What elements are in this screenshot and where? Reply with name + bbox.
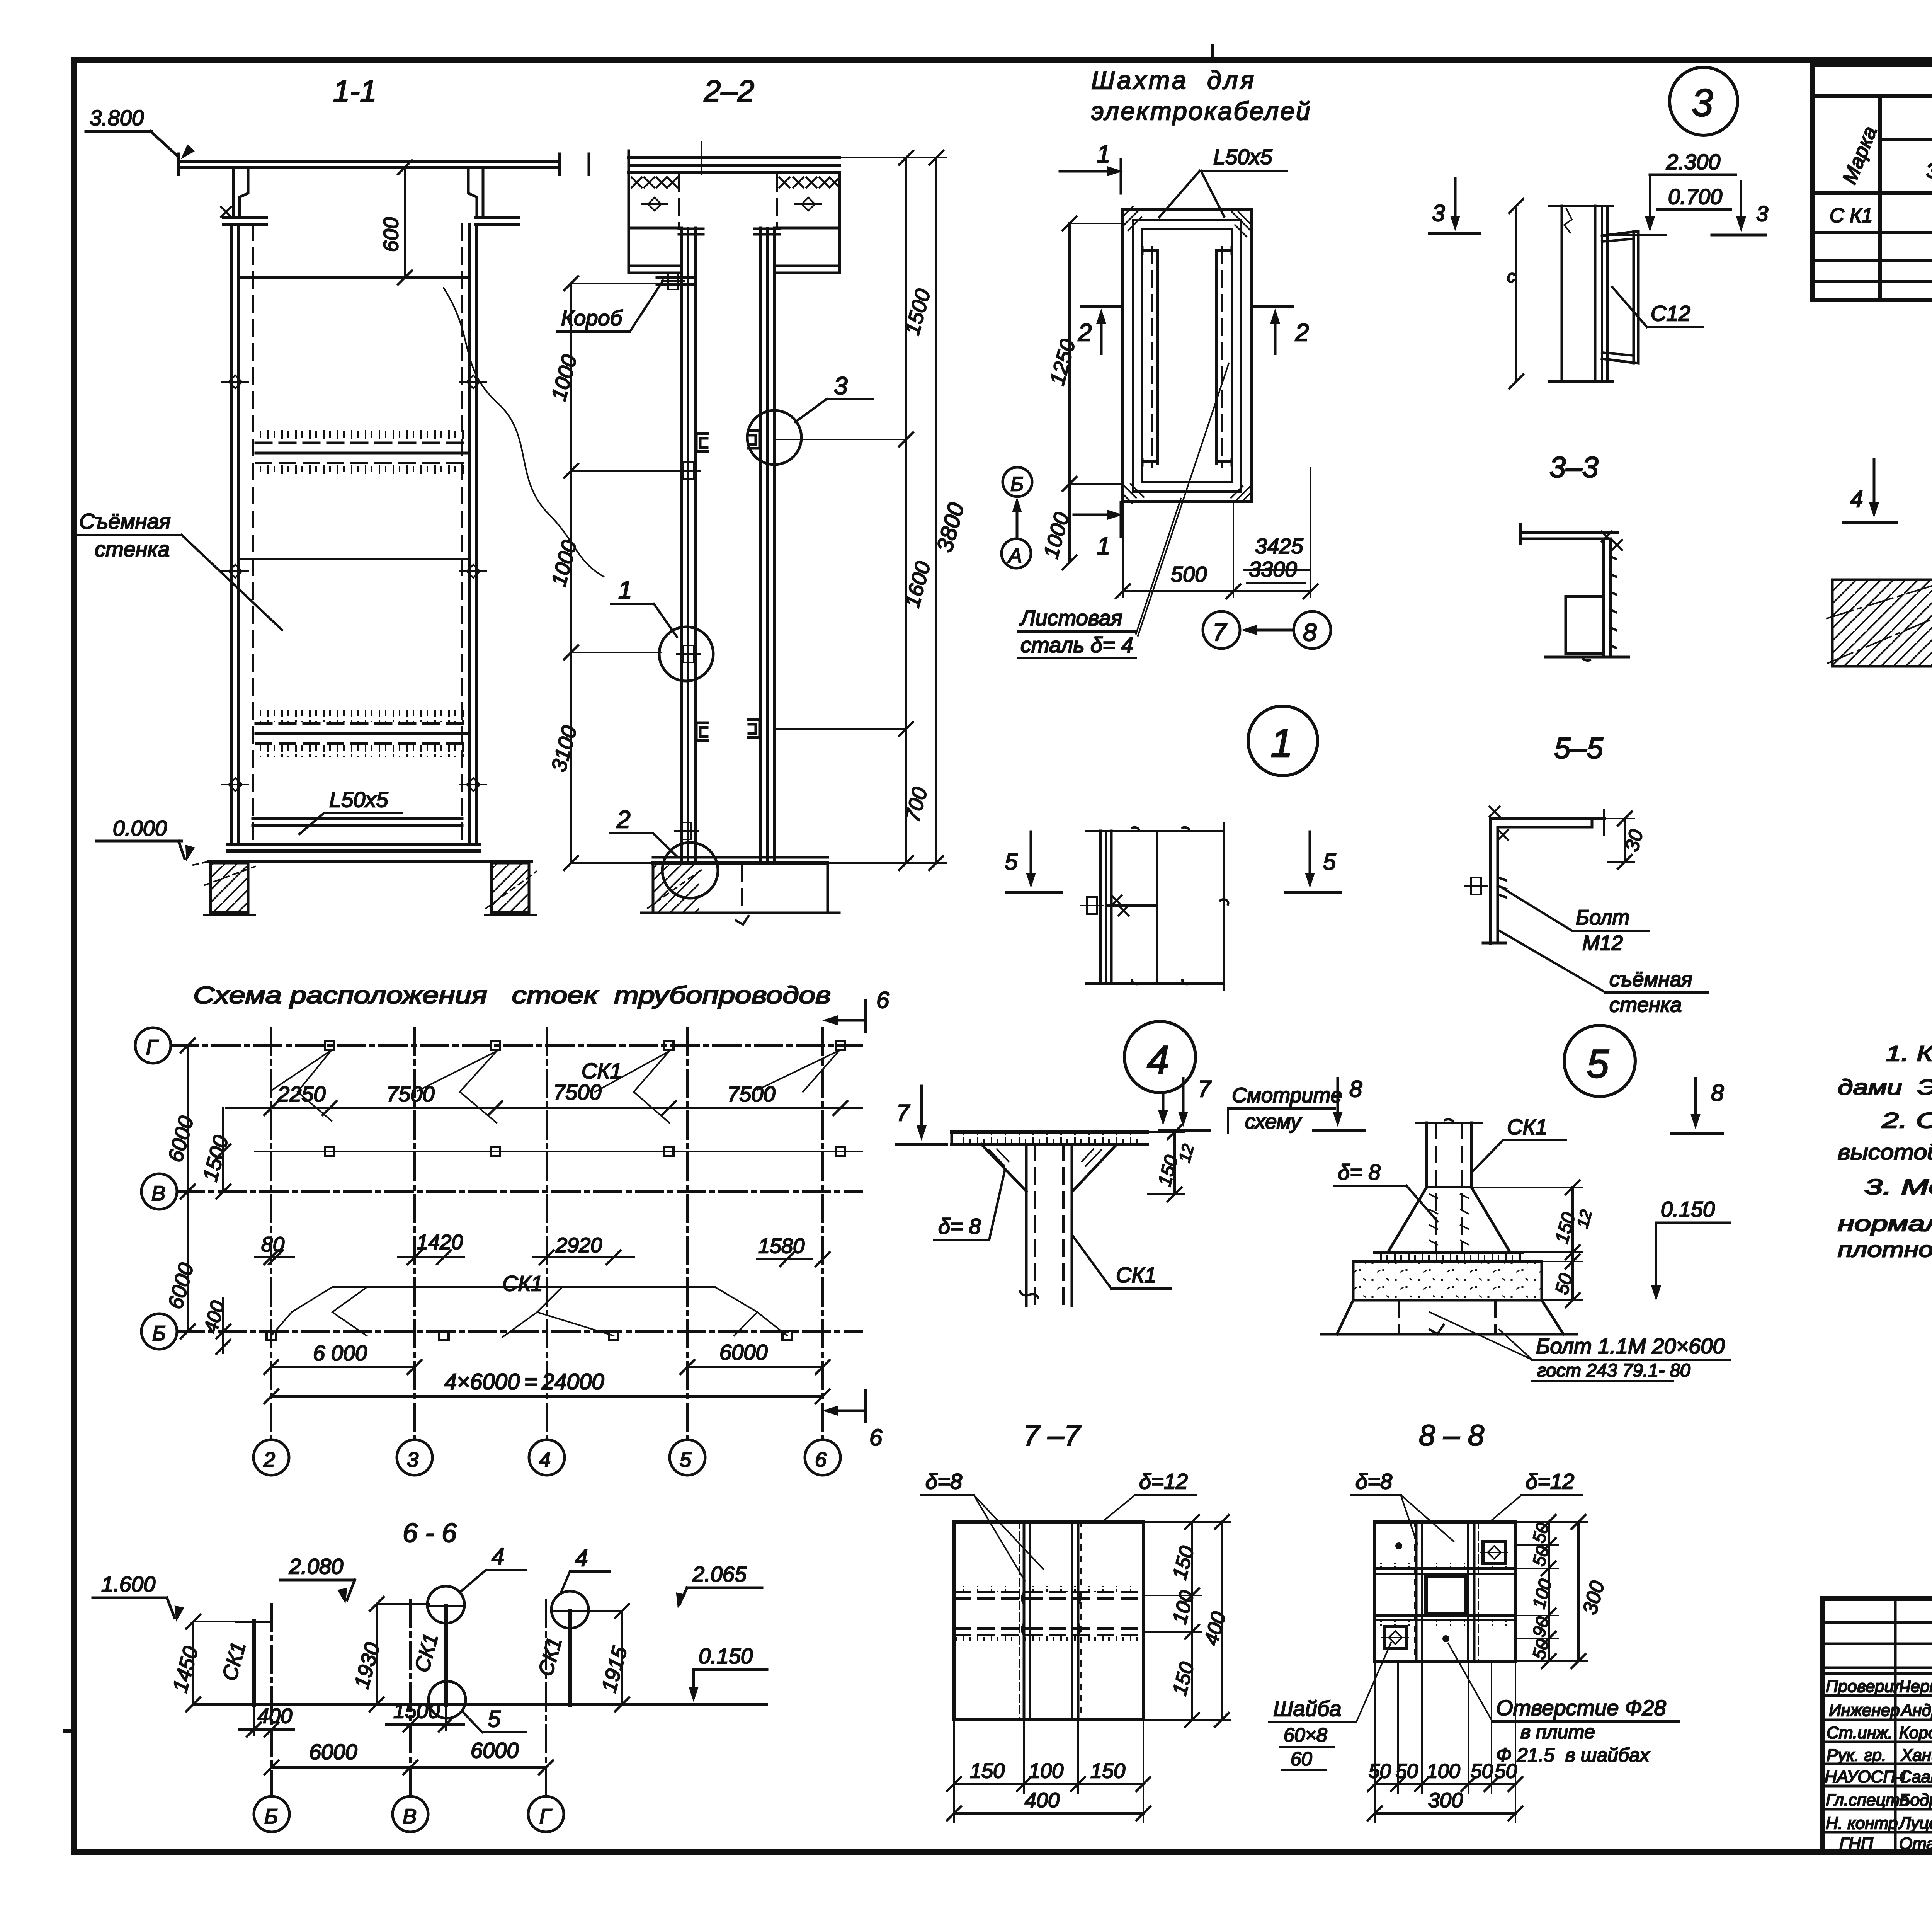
svg-text:L50x5: L50x5 <box>329 787 388 812</box>
svg-text:4: 4 <box>1850 486 1863 512</box>
dim 1500 <box>386 1699 464 1731</box>
svg-text:8: 8 <box>1711 1080 1724 1106</box>
svg-text:Листовая: Листовая <box>1019 606 1122 630</box>
svg-text:1: 1 <box>618 576 632 604</box>
svg-text:3: 3 <box>834 372 848 400</box>
svg-text:δ= 8: δ= 8 <box>1338 1160 1381 1184</box>
svg-text:400: 400 <box>1025 1789 1060 1812</box>
svg-text:Оташевский: Оташевский <box>1899 1834 1932 1853</box>
offset dims 80 1420 2920 1580 <box>255 1231 830 1266</box>
svg-text:100: 100 <box>1427 1760 1460 1782</box>
svg-text:с: с <box>1507 267 1515 286</box>
svg-text:3: 3 <box>1692 81 1713 124</box>
leader label 2 <box>611 805 677 856</box>
svg-text:7500: 7500 <box>386 1082 435 1106</box>
label delta=8 node 5 <box>1334 1160 1437 1221</box>
left foundation block <box>205 863 255 912</box>
svg-text:6 000: 6 000 <box>313 1341 367 1365</box>
svg-text:3.800: 3.800 <box>90 106 144 130</box>
svg-text:3425: 3425 <box>1255 534 1303 558</box>
svg-text:5: 5 <box>680 1448 692 1471</box>
label Листовая сталь <box>1019 363 1229 658</box>
svg-text:6: 6 <box>876 987 889 1013</box>
node 4 column head <box>952 1132 1148 1306</box>
section mark 2 left <box>1078 306 1123 354</box>
section mark 1 bottom <box>1074 502 1123 560</box>
svg-text:стенка: стенка <box>95 537 170 561</box>
svg-text:3: 3 <box>407 1448 418 1471</box>
svg-text:1.600: 1.600 <box>101 1572 155 1596</box>
svg-text:2250: 2250 <box>277 1082 326 1106</box>
leader label 1 <box>611 576 677 637</box>
column axis 3 <box>397 1028 432 1475</box>
node 1 joint detail <box>1080 823 1228 989</box>
svg-text:Ханин: Ханин <box>1901 1746 1932 1765</box>
svg-text:2.080: 2.080 <box>289 1554 343 1578</box>
slab soffit lines right <box>777 228 840 273</box>
fold mark top center <box>1211 46 1214 60</box>
clip channel lower right <box>748 720 760 737</box>
column axis 4 <box>529 1028 565 1475</box>
svg-text:Схема расположения стоек тр: Схема расположения стоек трубопроводов <box>193 982 831 1009</box>
svg-text:δ=12: δ=12 <box>1139 1469 1188 1493</box>
dim 400 <box>240 1704 294 1736</box>
svg-text:400: 400 <box>257 1704 292 1728</box>
8-8 bottom dims <box>1368 1661 1522 1823</box>
svg-text:6000: 6000 <box>309 1740 357 1764</box>
label delta=8 node 4 <box>934 1171 1005 1240</box>
svg-text:Шайба: Шайба <box>1273 1696 1341 1721</box>
column axis 5 <box>670 1028 705 1475</box>
inner removable wall plates <box>1142 229 1232 482</box>
svg-text:2: 2 <box>263 1448 275 1471</box>
post markers row Г <box>325 1041 845 1050</box>
left post cap <box>679 229 703 234</box>
axis В <box>141 1174 862 1209</box>
axis bubbles 6-6 <box>254 1796 564 1832</box>
node circle 5 <box>1564 1025 1635 1096</box>
svg-text:50: 50 <box>1396 1760 1418 1782</box>
svg-text:Проверил: Проверил <box>1826 1677 1903 1696</box>
dims 150 50 12 node 5 <box>1471 1180 1595 1307</box>
svg-text:500: 500 <box>1171 562 1207 586</box>
svg-text:7 –7: 7 –7 <box>1023 1419 1082 1452</box>
right column cap <box>475 218 519 224</box>
dim 30 <box>1604 812 1647 869</box>
foundation 2-2 <box>641 863 839 924</box>
svg-text:2.300: 2.300 <box>1666 150 1720 174</box>
section mark 7 at node 4 <box>1159 1076 1212 1131</box>
section 3 wall elevation <box>1549 206 1613 381</box>
svg-text:1: 1 <box>1270 721 1293 766</box>
base line <box>228 845 479 851</box>
svg-text:высотой hш= 4мм.: высотой hш= 4мм. <box>1838 1140 1932 1164</box>
svg-text:Бодрученко: Бодрученко <box>1899 1791 1932 1810</box>
8-8 base plate square <box>1375 1522 1515 1661</box>
bolt mid post <box>677 462 700 479</box>
dim 1250 <box>1046 216 1123 491</box>
svg-text:4: 4 <box>492 1544 504 1570</box>
svg-text:6: 6 <box>815 1448 827 1471</box>
bottom angle L50x5 <box>253 819 462 826</box>
svg-text:7: 7 <box>1198 1076 1212 1102</box>
clip channel lower left <box>696 723 708 741</box>
svg-text:Инженер: Инженер <box>1829 1701 1900 1720</box>
dim 600 <box>379 160 412 284</box>
svg-text:С К1: С К1 <box>1830 204 1873 227</box>
svg-text:СК1: СК1 <box>582 1059 622 1083</box>
svg-text:СК1: СК1 <box>1507 1115 1548 1139</box>
label Смотрите схему <box>1228 1084 1342 1133</box>
shaft outer wall rectangle <box>1123 210 1251 502</box>
dim chain right 1500/1600/700 <box>774 151 935 870</box>
svg-text:0.150: 0.150 <box>1661 1197 1715 1221</box>
svg-text:0.000: 0.000 <box>113 816 167 840</box>
svg-text:3: 3 <box>1756 201 1768 226</box>
section mark 5 left <box>1005 832 1062 893</box>
roof beam of view 1-1 <box>179 154 589 175</box>
post СК1 at Б <box>218 1622 270 1704</box>
svg-text:Луценко: Луценко <box>1898 1814 1932 1833</box>
level mark 3.800 <box>86 106 195 163</box>
post markers row Б <box>267 1331 792 1340</box>
svg-text:2.065: 2.065 <box>692 1562 747 1586</box>
svg-text:С12: С12 <box>1651 301 1690 325</box>
section mark 8 at node 5 <box>1672 1078 1724 1133</box>
svg-text:Гл.спецто: Гл.спецто <box>1826 1791 1909 1810</box>
section mark 1 top <box>1060 140 1123 193</box>
left post of shaft <box>682 228 696 863</box>
svg-text:сталь δ= 4: сталь δ= 4 <box>1020 633 1133 657</box>
label съёмная стенка 5-5 <box>1499 931 1708 1016</box>
svg-text:5–5: 5–5 <box>1554 732 1604 765</box>
svg-text:4: 4 <box>1147 1038 1169 1083</box>
arrow А to Б <box>1012 497 1022 538</box>
detail circle 2 <box>662 843 718 898</box>
svg-text:В: В <box>151 1182 165 1205</box>
svg-text:5: 5 <box>1005 849 1018 875</box>
svg-text:150: 150 <box>1090 1759 1125 1782</box>
svg-text:стенка: стенка <box>1609 993 1682 1016</box>
svg-text:Н. контр: Н. контр <box>1826 1814 1898 1833</box>
dim 150/12 node 4 <box>1148 1125 1197 1201</box>
node 2 concrete hatch <box>1827 575 1932 666</box>
leader label 3 <box>795 372 872 422</box>
svg-text:0.700: 0.700 <box>1668 184 1722 209</box>
svg-text:6000: 6000 <box>471 1738 519 1762</box>
left column cap <box>223 218 267 224</box>
label Болт 1.1М 20х600 <box>1430 1312 1730 1381</box>
svg-text:50: 50 <box>1471 1760 1493 1782</box>
7-7 bottom dims <box>947 1720 1150 1823</box>
axis lines 6-6 <box>272 1600 546 1796</box>
slab soffit lines left <box>629 228 679 273</box>
svg-text:электрокабелей: электрокабелей <box>1091 97 1312 125</box>
left dim 1500 <box>199 1108 233 1198</box>
svg-text:δ=12: δ=12 <box>1526 1469 1574 1493</box>
section mark 7 right of plan <box>896 1086 947 1145</box>
label L50x5 bottom angle <box>299 787 402 834</box>
dims 2250 7500 row <box>226 1080 862 1115</box>
svg-text:в плите: в плите <box>1520 1721 1595 1743</box>
svg-text:Ст.инж.: Ст.инж. <box>1827 1723 1893 1742</box>
7-7 right dims <box>1143 1515 1231 1727</box>
svg-text:1-1: 1-1 <box>333 74 377 108</box>
svg-text:6: 6 <box>869 1425 883 1450</box>
svg-text:3. Монтаж конструкций произв: 3. Монтаж конструкций производить на бол… <box>1864 1175 1932 1199</box>
8-8 right dims <box>1515 1515 1609 1668</box>
svg-text:1500: 1500 <box>393 1699 440 1723</box>
clip channel upper left <box>696 434 708 451</box>
СК1 lower callout <box>271 1271 787 1337</box>
svg-text:δ=8: δ=8 <box>925 1469 962 1493</box>
label СК1 node 4 <box>1073 1237 1171 1289</box>
left dim 400 <box>200 1299 230 1354</box>
clip channel upper right <box>748 431 760 448</box>
svg-text:4: 4 <box>575 1545 588 1571</box>
svg-text:Чернавская: Чернавская <box>1899 1677 1932 1696</box>
column axis 6 <box>805 1028 840 1475</box>
svg-text:3–3: 3–3 <box>1549 451 1599 484</box>
svg-text:М12: М12 <box>1582 931 1623 955</box>
label Болт М12 <box>1504 889 1649 955</box>
svg-text:плотно затянуть, нарезку расч: плотно затянуть, нарезку расчеканить. <box>1838 1237 1932 1261</box>
level 1.600 <box>93 1572 184 1623</box>
dims 6000 6-6 <box>265 1738 553 1774</box>
node label 5 <box>463 1706 526 1732</box>
svg-text:Коротенко: Коротенко <box>1899 1723 1932 1742</box>
svg-text:6000: 6000 <box>719 1340 768 1364</box>
post СК1 at Г <box>534 1591 588 1704</box>
svg-text:4: 4 <box>539 1448 551 1471</box>
svg-text:схему: схему <box>1245 1110 1302 1133</box>
svg-text:А: А <box>1007 545 1022 567</box>
svg-text:Андреева: Андреева <box>1900 1701 1932 1720</box>
svg-text:Рук. гр.: Рук. гр. <box>1827 1746 1886 1765</box>
bottom dims 6000 <box>264 1340 830 1374</box>
horizontal line at 2.300 level <box>1604 234 1665 236</box>
svg-text:2: 2 <box>616 805 631 833</box>
svg-text:δ= 8: δ= 8 <box>938 1214 981 1238</box>
axis Б <box>141 1314 862 1349</box>
title block signature table <box>1823 1599 1932 1852</box>
right post of shaft <box>760 228 774 863</box>
right parapet post <box>468 167 483 218</box>
label L50x5 plan <box>1159 145 1287 217</box>
labels delta 8-8 <box>1352 1469 1582 1544</box>
axis Г <box>135 1028 862 1063</box>
svg-text:гост 243 79.1- 80: гост 243 79.1- 80 <box>1537 1360 1690 1381</box>
circled 7 with arrow from 8 <box>1203 611 1331 649</box>
grid bubble А <box>1002 539 1031 568</box>
right foundation block <box>486 863 536 912</box>
svg-text:1. Конструкции сварные. Сварку: 1. Конструкции сварные. Сварку производи… <box>1886 1041 1932 1066</box>
svg-text:6 - 6: 6 - 6 <box>403 1518 457 1548</box>
right column of shaft <box>462 224 477 845</box>
base plate 2-2 <box>653 857 828 863</box>
svg-text:5: 5 <box>1587 1042 1609 1086</box>
svg-text:нормальной точности и сварке: нормальной точности и сварке, согласно у… <box>1838 1211 1932 1236</box>
signature rows text <box>1825 1677 1932 1853</box>
svg-text:1: 1 <box>1097 532 1111 560</box>
svg-text:СК1: СК1 <box>1116 1263 1156 1287</box>
svg-text:7: 7 <box>1213 618 1227 646</box>
grating strip upper <box>256 430 467 476</box>
node label 4 second <box>561 1545 610 1592</box>
section mark 4 left <box>1844 459 1896 523</box>
svg-text:СК1: СК1 <box>502 1271 543 1296</box>
svg-text:Саакьянц: Саакьянц <box>1899 1767 1932 1786</box>
svg-text:0.150: 0.150 <box>699 1644 753 1668</box>
7-7 base plate square <box>954 1522 1143 1720</box>
bolt at detail 1 <box>677 645 700 662</box>
svg-text:7: 7 <box>896 1100 910 1126</box>
svg-text:ГНП: ГНП <box>1839 1834 1873 1853</box>
level 2.300 <box>1645 150 1736 232</box>
dim chain left 1000/1000/3100 <box>547 276 682 870</box>
svg-text:Съёмная: Съёмная <box>79 509 171 533</box>
level mark 0.000 view 1-1 <box>97 816 211 865</box>
section mark 8 at node 4 <box>1314 1076 1364 1131</box>
svg-text:Г: Г <box>146 1036 159 1059</box>
svg-text:2: 2 <box>1078 318 1092 346</box>
grating strip lower <box>256 710 467 757</box>
roof slab left block <box>629 175 679 228</box>
detail circle 1 <box>659 627 713 681</box>
svg-text:Эскиз: Эскиз <box>1926 159 1932 182</box>
svg-text:5: 5 <box>1323 849 1336 875</box>
svg-text:Б: Б <box>1010 473 1024 495</box>
section mark 5 right <box>1286 832 1341 893</box>
svg-text:Болт 1.1М 20×600: Болт 1.1М 20×600 <box>1536 1334 1725 1358</box>
svg-text:300: 300 <box>1428 1789 1463 1812</box>
level 2.080 <box>281 1554 355 1605</box>
mid horizontal member <box>239 558 470 560</box>
svg-text:7500: 7500 <box>727 1082 776 1106</box>
node 5 concrete pedestal <box>1321 1261 1577 1334</box>
svg-text:Г: Г <box>539 1805 552 1828</box>
node 5 column base <box>1375 1119 1522 1261</box>
corner weld hatch <box>1123 206 1251 503</box>
svg-text:5: 5 <box>488 1706 501 1732</box>
svg-text:2–2: 2–2 <box>704 74 754 108</box>
svg-text:Отверстие Ф28: Отверстие Ф28 <box>1496 1696 1666 1720</box>
section mark 2 right <box>1251 306 1309 354</box>
bolt diamonds on columns <box>222 375 248 388</box>
section 5-5 angle with bolt <box>1464 807 1604 943</box>
fold mark left edge <box>65 1729 74 1733</box>
section mark 6 bottom <box>822 1391 883 1450</box>
label C12 <box>1612 287 1703 327</box>
svg-text:Шахта для: Шахта для <box>1091 66 1256 94</box>
node circle 1 <box>1248 706 1318 776</box>
dim line section 3 <box>1507 199 1523 388</box>
label Шайба 60х8/60 <box>1269 1643 1391 1770</box>
left column of shaft <box>232 224 253 845</box>
level 2.065 <box>673 1562 762 1610</box>
section mark 3 left <box>1430 179 1480 233</box>
roof beam of view 2-2 <box>629 151 840 178</box>
svg-text:3: 3 <box>1432 200 1445 226</box>
right post cap <box>754 229 780 234</box>
dim 1000 lower <box>1039 484 1077 569</box>
svg-text:Смотрите: Смотрите <box>1232 1084 1342 1107</box>
svg-text:7500: 7500 <box>553 1080 602 1104</box>
svg-text:2. Сварку шахты выполнять с: 2. Сварку шахты выполнять сплошным швом <box>1881 1108 1932 1132</box>
svg-text:4×6000 = 24000: 4×6000 = 24000 <box>444 1369 604 1394</box>
floor line <box>209 860 531 863</box>
svg-text:60: 60 <box>1291 1748 1312 1770</box>
svg-text:100: 100 <box>1029 1759 1063 1782</box>
korob bracket <box>657 272 692 289</box>
svg-text:Болт: Болт <box>1576 906 1629 929</box>
bolt at bottom <box>675 822 698 839</box>
ground line 6-6 <box>196 1703 767 1706</box>
svg-text:В: В <box>403 1805 417 1828</box>
dim 1450 <box>168 1615 236 1711</box>
grid bubble Б <box>1003 467 1032 497</box>
level 0.700 <box>1658 182 1768 235</box>
bottom dim 24000 <box>264 1369 830 1403</box>
ground ticks under footings <box>204 914 255 916</box>
detail circle 3 <box>747 410 801 465</box>
label Отверстие Ф28 <box>1448 1643 1679 1766</box>
post СК1 at В with node circles 4 and 5 <box>410 1586 466 1718</box>
label съёмная стенка <box>77 509 282 630</box>
level 0.150 <box>689 1644 767 1702</box>
C12 channel in section 3 <box>1602 231 1638 363</box>
svg-text:50: 50 <box>1369 1760 1391 1782</box>
post markers row 2 <box>255 1147 862 1156</box>
svg-text:съёмная: съёмная <box>1609 968 1692 991</box>
svg-text:Б: Б <box>152 1322 166 1345</box>
leader flags СК1 upper <box>270 1050 839 1123</box>
node circle 4 <box>1124 1021 1196 1125</box>
svg-text:1: 1 <box>1097 140 1111 168</box>
svg-text:2: 2 <box>1295 318 1309 346</box>
svg-text:НАУОСП-І: НАУОСП-І <box>1825 1767 1906 1786</box>
svg-text:Б: Б <box>264 1805 278 1828</box>
svg-text:150: 150 <box>970 1759 1005 1782</box>
wavy break line <box>444 288 604 577</box>
node circle 3 <box>1670 67 1738 135</box>
element list table <box>1813 65 1932 300</box>
labels delta 7-7 <box>922 1469 1196 1581</box>
svg-text:L50x5: L50x5 <box>1213 145 1272 169</box>
svg-text:дами Э42 по гост 9467- 75.: дами Э42 по гост 9467- 75. <box>1838 1075 1932 1099</box>
dim 3800 overall <box>701 142 969 870</box>
dim 1915 <box>587 1604 632 1711</box>
section 3-3 angle detail <box>1520 524 1629 661</box>
svg-text:δ=8: δ=8 <box>1355 1469 1392 1493</box>
svg-text:Ф 21.5 в шайбах: Ф 21.5 в шайбах <box>1496 1744 1650 1766</box>
left parapet post <box>221 167 248 218</box>
svg-text:600: 600 <box>379 217 403 252</box>
label СК1 node 5 <box>1473 1115 1566 1171</box>
svg-text:8 – 8: 8 – 8 <box>1419 1419 1484 1452</box>
svg-text:60×8: 60×8 <box>1284 1724 1327 1746</box>
dim 1930 <box>350 1597 430 1711</box>
svg-text:2920: 2920 <box>555 1234 602 1257</box>
dim 500 and 3425 <box>1116 468 1318 598</box>
level 0.150 node 5 <box>1651 1197 1730 1301</box>
column axis 2 <box>253 1028 289 1475</box>
horizontal member y718 <box>239 276 470 279</box>
roof slab right block <box>777 175 840 228</box>
label Короб <box>557 281 663 332</box>
section mark 6 top <box>822 987 889 1031</box>
svg-text:1580: 1580 <box>758 1234 804 1258</box>
